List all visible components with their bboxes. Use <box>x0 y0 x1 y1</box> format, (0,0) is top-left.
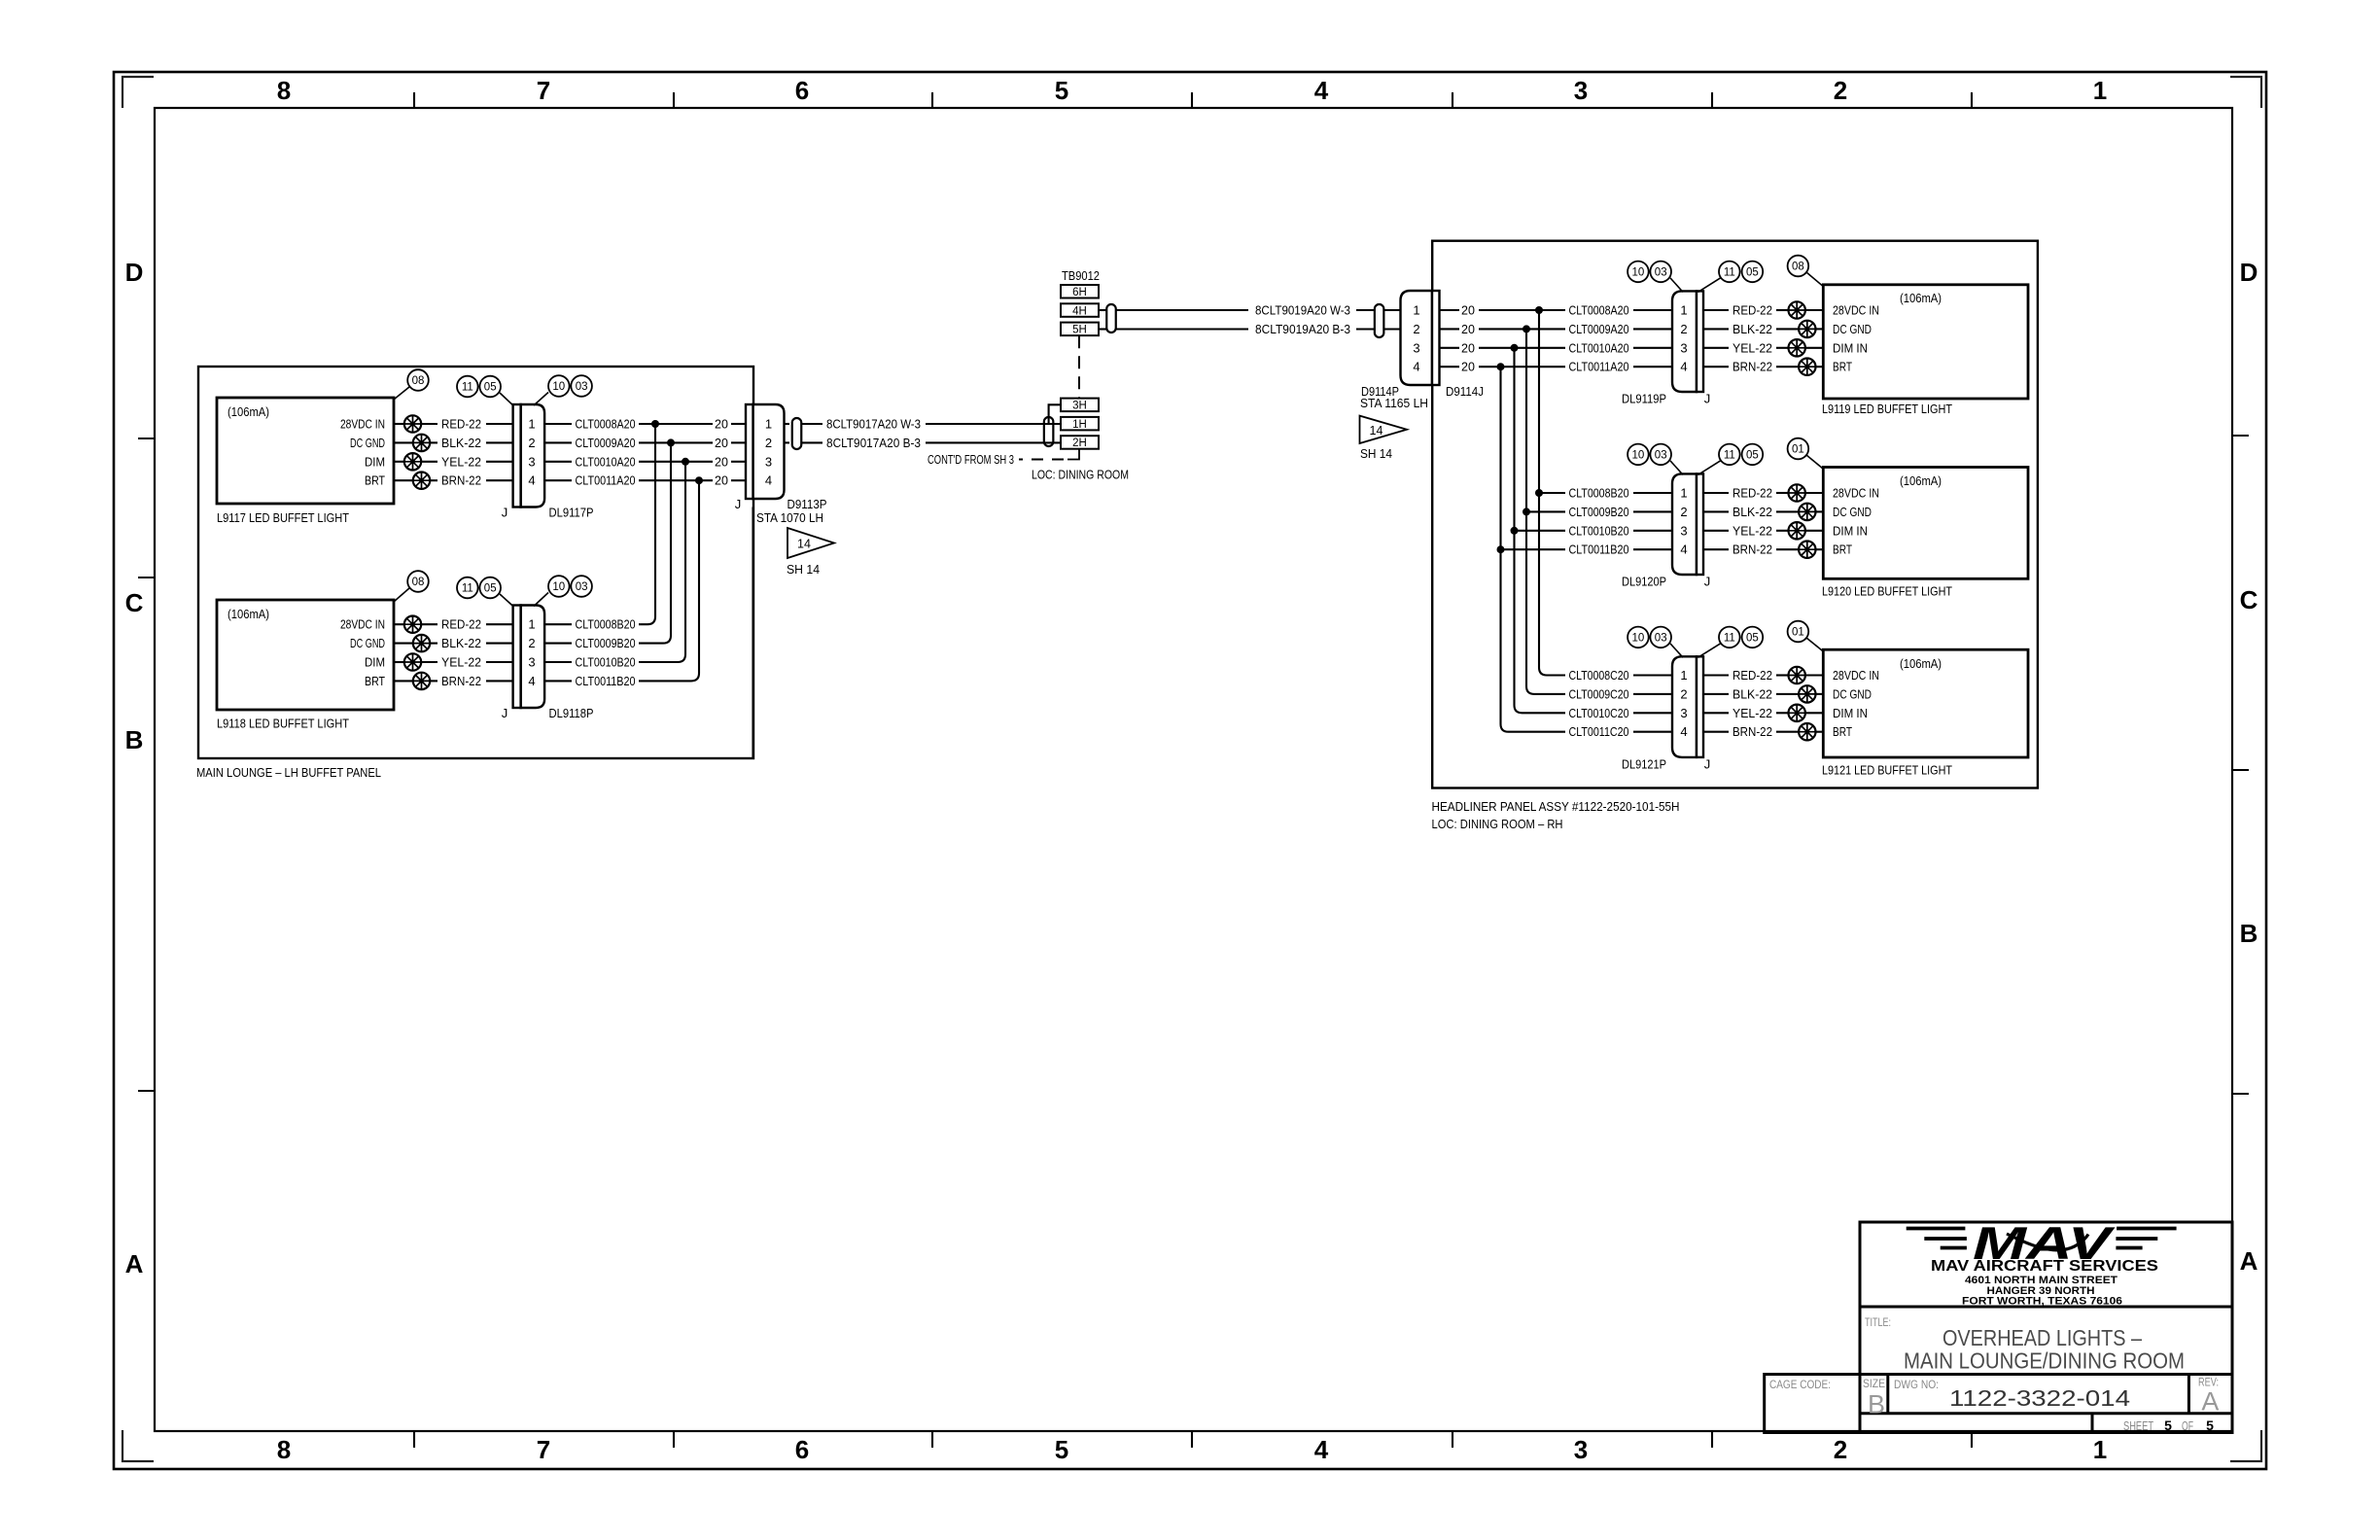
wire 20 label to CLT harness row 2 <box>1479 328 1565 330</box>
svg-text:DIM: DIM <box>365 656 385 670</box>
connector D9114P / D9114J <box>1401 291 1433 385</box>
svg-text:2H: 2H <box>1072 437 1087 449</box>
svg-text:05: 05 <box>484 382 497 394</box>
svg-text:28VDC IN: 28VDC IN <box>1833 304 1879 318</box>
wire 20 label to D9113P pin 4 <box>731 479 747 481</box>
wire DL9119P pin 3 to label YEL-22 <box>1703 347 1730 349</box>
svg-text:DC GND: DC GND <box>1833 687 1872 701</box>
leader 10 to DL9117P body <box>534 393 548 406</box>
svg-text:4: 4 <box>1314 76 1329 105</box>
wire CLT0008B20 riser to junction row 1 <box>639 424 655 624</box>
svg-text:3H: 3H <box>1072 401 1087 412</box>
leader 11 to DL9120P bar <box>1698 461 1721 475</box>
leader 10 to DL9118P body <box>534 593 548 607</box>
wire L9117 RED-22 segment box to lamp <box>394 423 405 425</box>
svg-text:1: 1 <box>528 417 535 432</box>
lamp symbol on BLK-22 of L9120 <box>1799 504 1815 520</box>
svg-text:CLT0011C20: CLT0011C20 <box>1569 725 1629 739</box>
svg-text:11: 11 <box>1724 449 1735 461</box>
wire DL9120P pin 4 to label BRN-22 <box>1703 548 1730 550</box>
svg-text:L9120 LED BUFFET LIGHT: L9120 LED BUFFET LIGHT <box>1822 585 1952 599</box>
wire branch to DL9120P pin 4 <box>1501 548 1566 550</box>
svg-text:1: 1 <box>2093 1435 2107 1464</box>
svg-text:8: 8 <box>277 1435 291 1464</box>
leader 11 to DL9121P bar <box>1698 644 1721 657</box>
wire 8CLT9017A20 B-3 from oval <box>801 441 822 443</box>
svg-text:CLT0010A20: CLT0010A20 <box>1569 341 1629 355</box>
connector DL9120P (P/J pair) <box>1672 473 1697 575</box>
panel box HEADLINER PANEL ASSY <box>1432 241 2038 788</box>
junction dot node row 1 <box>651 420 659 428</box>
lamp symbol on RED-22 of L9118 <box>404 616 421 633</box>
wire lamp to L9120 box <box>1815 510 1824 512</box>
svg-text:B: B <box>125 725 144 754</box>
svg-text:3: 3 <box>1574 76 1588 105</box>
terminal 4H of TB9012 <box>1061 303 1099 317</box>
svg-text:BRT: BRT <box>365 675 385 688</box>
station line right edge of left panel (STA 1070) <box>752 507 753 759</box>
svg-text:8: 8 <box>277 76 291 105</box>
svg-text:C: C <box>125 588 144 617</box>
svg-text:A: A <box>125 1249 144 1278</box>
wire CLT0009A20 to connector DL9119P <box>1633 328 1673 330</box>
zone ticks left edge <box>138 438 155 1091</box>
lamp symbol on BRN-22 of L9121 <box>1799 723 1815 740</box>
callout circle 01 for L9121 <box>1788 621 1809 643</box>
svg-text:LOC: DINING ROOM: LOC: DINING ROOM <box>1032 469 1129 482</box>
svg-text:RED-22: RED-22 <box>1732 304 1772 318</box>
svg-text:MAIN LOUNGE – LH BUFFET P: MAIN LOUNGE – LH BUFFET PANEL <box>196 765 381 780</box>
wire lamp to L9121 box <box>1815 693 1824 695</box>
corner trim mark top-right <box>2230 77 2261 108</box>
title block outline <box>1860 1222 2232 1433</box>
svg-text:DIM IN: DIM IN <box>1833 341 1868 355</box>
svg-text:(106mA): (106mA) <box>227 405 269 419</box>
wire lamp to label YEL-22 <box>420 461 437 463</box>
svg-text:SIZE: SIZE <box>1863 1379 1885 1390</box>
lamp symbol on BRN-22 of L9118 <box>413 673 430 689</box>
svg-text:YEL-22: YEL-22 <box>1732 341 1772 355</box>
panel box MAIN LOUNGE - LH BUFFET PANEL <box>198 367 753 758</box>
lamp symbol on RED-22 of L9121 <box>1789 667 1805 683</box>
callout circles 10 03 for DL9120P <box>1627 444 1649 466</box>
vertical bus wires from D9114J to lower lights <box>1539 310 1565 676</box>
leader 11 to DL9119P bar <box>1698 278 1721 293</box>
svg-text:SHEET: SHEET <box>2123 1419 2153 1433</box>
wire lamp to L9120 box <box>1804 530 1823 532</box>
LED buffet light L9121 <box>1823 649 2028 757</box>
title block divider below dwg no <box>1860 1412 2232 1415</box>
title block size/dwg divider <box>1886 1375 1889 1414</box>
svg-text:2: 2 <box>1413 322 1419 336</box>
connector DL9117P (J/P pair) <box>521 404 545 507</box>
junction dot node row 3 <box>682 458 689 466</box>
wire 8CLT9019A20 B-3 left segment <box>1116 328 1248 330</box>
junction dot D9114J row 2 <box>1522 325 1530 332</box>
connector DL9121P (P/J pair) <box>1672 656 1697 757</box>
svg-text:DL9121P: DL9121P <box>1622 757 1666 771</box>
svg-text:28VDC IN: 28VDC IN <box>1833 669 1879 682</box>
svg-text:4: 4 <box>1680 360 1687 374</box>
svg-text:10: 10 <box>1632 449 1645 461</box>
wire lamp to label RED-22 <box>420 623 437 625</box>
wire RED-22 label to connector DL9118P <box>486 623 513 625</box>
svg-text:2: 2 <box>1680 322 1687 336</box>
callout circles 10 03 for DL9119P <box>1627 262 1649 283</box>
svg-text:(106mA): (106mA) <box>227 608 269 621</box>
wire lamp to L9119 box <box>1804 347 1823 349</box>
zone letters right edge D C B A <box>2240 258 2258 1276</box>
svg-text:CLT0010B20: CLT0010B20 <box>576 656 636 670</box>
wire CLT0010A20 to connector DL9119P <box>1633 347 1673 349</box>
svg-text:DC GND: DC GND <box>350 437 385 450</box>
wire DL9120P pin 3 to label YEL-22 <box>1703 530 1730 532</box>
LED buffet light L9119 <box>1823 285 2028 399</box>
svg-text:1: 1 <box>1413 303 1419 318</box>
leader 08 to L9119 box corner <box>1806 272 1823 286</box>
wire lamp to label BRN-22 <box>429 680 437 682</box>
svg-text:20: 20 <box>1461 323 1475 336</box>
svg-text:20: 20 <box>715 474 728 488</box>
svg-text:20: 20 <box>1461 304 1475 318</box>
wire L9118 YEL-22 segment box to lamp <box>394 661 405 663</box>
svg-text:BRT: BRT <box>365 474 385 488</box>
wire YEL-22 label to lamp <box>1776 347 1789 349</box>
svg-text:CLT0008C20: CLT0008C20 <box>1569 669 1629 682</box>
wire lamp to L9121 box <box>1804 674 1823 676</box>
zone ticks bottom edge <box>414 1431 1972 1448</box>
wire BLK-22 label to connector DL9117P <box>486 441 513 443</box>
svg-text:YEL-22: YEL-22 <box>1732 707 1772 720</box>
wire CLT0008A20 from connector pin 1 <box>544 423 572 425</box>
wire L9118 RED-22 segment box to lamp <box>394 623 405 625</box>
svg-text:2: 2 <box>765 436 772 450</box>
zone ticks right edge <box>2232 436 2249 1094</box>
callout circle 08 for L9118 <box>407 571 429 592</box>
svg-text:SH 14: SH 14 <box>787 563 820 577</box>
sheet reference triangle 14 (SH 14) right <box>1360 416 1408 443</box>
wire BRN-22 label to lamp <box>1776 548 1800 550</box>
wire D9114J pin 4 to gauge label <box>1440 366 1459 367</box>
svg-text:CLT0009A20: CLT0009A20 <box>576 437 636 450</box>
svg-text:J: J <box>502 506 508 520</box>
corner trim mark top-left <box>122 77 154 108</box>
LED buffet light L9117 <box>217 398 394 504</box>
svg-text:1: 1 <box>1680 668 1687 682</box>
wire CLT0008C20 to connector DL9121P <box>1633 674 1673 676</box>
leader 08 to L9117 box corner <box>395 387 410 400</box>
wire CLT0008A20 to connector DL9119P <box>1633 309 1673 311</box>
wire 20 label to CLT harness row 1 <box>1479 309 1565 311</box>
svg-text:FORT WORTH, TEXAS 76106: FORT WORTH, TEXAS 76106 <box>1962 1296 2122 1308</box>
svg-text:8CLT9017A20 B-3: 8CLT9017A20 B-3 <box>826 437 921 450</box>
svg-text:20: 20 <box>1461 361 1475 374</box>
wire YEL-22 label to connector DL9118P <box>486 661 513 663</box>
svg-text:CLT0009C20: CLT0009C20 <box>1569 687 1629 701</box>
wire BLK-22 label to connector DL9118P <box>486 643 513 645</box>
svg-text:5: 5 <box>2206 1417 2214 1433</box>
svg-text:10: 10 <box>1632 266 1645 278</box>
wire 8CLT9017A20 W-3 to terminal 1H <box>926 423 1061 425</box>
svg-text:A: A <box>2201 1387 2219 1417</box>
svg-text:1H: 1H <box>1072 419 1087 431</box>
wire lamp to label BRN-22 <box>429 479 437 481</box>
svg-text:CLT0009A20: CLT0009A20 <box>1569 323 1629 336</box>
svg-text:B: B <box>2240 919 2258 948</box>
svg-text:DIM: DIM <box>365 455 385 469</box>
wire L9118 BRN-22 segment box to lamp <box>394 680 414 682</box>
svg-text:BLK-22: BLK-22 <box>1732 506 1772 519</box>
wire DL9119P pin 4 to label BRN-22 <box>1703 366 1730 367</box>
lamp symbol on RED-22 of L9119 <box>1789 301 1805 318</box>
svg-text:J: J <box>1704 392 1711 406</box>
corner trim mark bottom-right <box>2230 1430 2261 1461</box>
title block sheet cell divider <box>2091 1414 2094 1433</box>
zone numbers bottom edge 8-1 <box>277 1435 2107 1464</box>
wire YEL-22 label to connector DL9117P <box>486 461 513 463</box>
wire lamp to L9119 box <box>1815 328 1824 330</box>
svg-text:03: 03 <box>1655 266 1667 278</box>
svg-text:J: J <box>1704 756 1711 771</box>
wire DL9119P pin 1 to label RED-22 <box>1703 309 1730 311</box>
wire CLT0010A20 from connector pin 3 <box>544 461 572 463</box>
wire D9114J pin 1 to gauge label <box>1440 309 1459 311</box>
jumper terminal 3H to wire W-3 <box>1049 404 1061 424</box>
svg-text:L9119 LED BUFFET LIGHT: L9119 LED BUFFET LIGHT <box>1822 402 1952 416</box>
svg-text:20: 20 <box>715 437 728 450</box>
svg-text:28VDC IN: 28VDC IN <box>1833 487 1879 501</box>
svg-text:8CLT9019A20 W-3: 8CLT9019A20 W-3 <box>1255 304 1350 318</box>
svg-text:D: D <box>2240 258 2258 287</box>
dashed tie line TB9012 upper to lower group <box>1078 335 1080 398</box>
svg-text:OF: OF <box>2182 1419 2193 1433</box>
zone numbers top edge 8-1 <box>277 76 2107 105</box>
svg-text:BRT: BRT <box>1833 543 1852 557</box>
svg-text:08: 08 <box>412 375 425 387</box>
wire CLT0011B20 from connector pin 4 <box>544 680 572 682</box>
wire CLT0010C20 to connector DL9121P <box>1633 712 1673 714</box>
wire BRN-22 label to connector DL9118P <box>486 680 513 682</box>
callout circle 08 for L9117 <box>407 369 429 391</box>
svg-text:1: 1 <box>765 417 772 432</box>
svg-text:3: 3 <box>1680 706 1687 720</box>
wire lamp to L9119 box <box>1804 309 1823 311</box>
svg-text:CLT0011B20: CLT0011B20 <box>576 675 636 688</box>
leader 01 to L9121 box corner <box>1806 638 1823 651</box>
svg-text:01: 01 <box>1792 627 1804 639</box>
LED buffet light L9118 <box>217 600 394 710</box>
svg-text:4: 4 <box>765 473 772 488</box>
svg-text:D9113P: D9113P <box>787 498 827 511</box>
svg-text:BRT: BRT <box>1833 725 1852 739</box>
callout circles 11 05 for DL9121P <box>1719 627 1740 648</box>
wire BRN-22 label to lamp <box>1776 366 1800 367</box>
svg-text:CLT0011A20: CLT0011A20 <box>1569 361 1629 374</box>
svg-text:11: 11 <box>1724 632 1735 644</box>
svg-text:3: 3 <box>765 454 772 469</box>
wire lamp to L9119 box <box>1815 366 1824 367</box>
svg-text:20: 20 <box>1461 341 1475 355</box>
lamp symbol on BLK-22 of L9119 <box>1799 321 1815 337</box>
zone ticks top edge <box>414 92 1972 108</box>
svg-text:YEL-22: YEL-22 <box>441 656 481 670</box>
svg-text:6: 6 <box>795 76 809 105</box>
svg-text:28VDC IN: 28VDC IN <box>340 618 385 632</box>
wire 20 label to D9113P pin 1 <box>731 423 747 425</box>
svg-text:1122-3322-014: 1122-3322-014 <box>1949 1385 2130 1411</box>
wire twisted pair to D9114P pin 1 <box>1383 309 1401 311</box>
wire CLT0011A20 to connector DL9119P <box>1633 366 1673 367</box>
svg-text:CLT0008A20: CLT0008A20 <box>1569 304 1629 318</box>
svg-text:5: 5 <box>1055 76 1068 105</box>
leader 05 to DL9118P bar <box>500 594 513 607</box>
svg-text:B: B <box>1868 1390 1885 1419</box>
svg-text:BLK-22: BLK-22 <box>441 437 481 450</box>
svg-text:L9118 LED BUFFET LIGHT: L9118 LED BUFFET LIGHT <box>217 717 349 731</box>
wire DL9119P pin 2 to label BLK-22 <box>1703 328 1730 330</box>
svg-text:11: 11 <box>462 382 473 394</box>
wire branch to DL9120P pin 1 <box>1539 492 1565 494</box>
svg-text:BRN-22: BRN-22 <box>1732 725 1772 739</box>
callout circles 11 05 for DL9119P <box>1719 262 1740 283</box>
callout circles 11 05 for DL9118P <box>457 577 478 599</box>
svg-text:DL9120P: DL9120P <box>1622 576 1666 589</box>
svg-text:03: 03 <box>1655 449 1667 461</box>
svg-text:SH 14: SH 14 <box>1360 447 1392 461</box>
zone letters left edge D C B A <box>125 258 144 1278</box>
svg-text:08: 08 <box>1792 262 1804 273</box>
svg-text:11: 11 <box>462 583 473 595</box>
wire CLT0008B20 to connector DL9120P <box>1633 492 1673 494</box>
svg-text:4: 4 <box>528 473 535 488</box>
svg-text:(106mA): (106mA) <box>1900 657 1942 671</box>
svg-text:05: 05 <box>1746 266 1759 278</box>
wire CLT0009B20 riser to junction row 2 <box>639 442 671 643</box>
svg-text:2: 2 <box>528 436 535 450</box>
svg-text:J: J <box>502 706 508 720</box>
wire CLT0009A20 to D9113P pin 2 <box>639 441 713 443</box>
wire RED-22 label to lamp <box>1776 674 1789 676</box>
wire CLT0011C20 to connector DL9121P <box>1633 731 1673 733</box>
svg-text:28VDC IN: 28VDC IN <box>340 418 385 432</box>
wire BRN-22 label to connector DL9117P <box>486 479 513 481</box>
svg-text:MAIN LOUNGE/DINING ROOM: MAIN LOUNGE/DINING ROOM <box>1904 1348 2185 1374</box>
svg-text:03: 03 <box>1655 632 1667 644</box>
terminal 2H of TB9012 <box>1061 436 1099 449</box>
leader 03 to DL9121P body <box>1670 644 1683 657</box>
svg-text:RED-22: RED-22 <box>441 618 481 632</box>
wire BRN-22 label to lamp <box>1776 731 1800 733</box>
wire DL9121P pin 2 to label BLK-22 <box>1703 693 1730 695</box>
wire L9117 YEL-22 segment box to lamp <box>394 461 405 463</box>
svg-text:5: 5 <box>2164 1417 2172 1433</box>
wire lamp to L9120 box <box>1804 492 1823 494</box>
svg-text:10: 10 <box>1632 632 1645 644</box>
svg-text:D: D <box>125 258 144 287</box>
svg-text:08: 08 <box>412 577 425 588</box>
svg-text:5H: 5H <box>1072 325 1087 336</box>
svg-text:L9117 LED BUFFET LIGHT: L9117 LED BUFFET LIGHT <box>217 511 349 525</box>
wire L9118 BLK-22 segment box to lamp <box>394 643 414 645</box>
svg-text:CLT0010A20: CLT0010A20 <box>576 455 636 469</box>
wire lamp to label RED-22 <box>420 423 437 425</box>
svg-text:DC GND: DC GND <box>1833 506 1872 519</box>
twisted-pair symbol at D9113P output <box>785 423 789 425</box>
svg-text:C: C <box>2240 585 2258 614</box>
svg-text:CLT0008B20: CLT0008B20 <box>576 618 636 632</box>
wire CLT0009A20 from connector pin 2 <box>544 441 572 443</box>
svg-text:DWG NO:: DWG NO: <box>1894 1380 1939 1391</box>
svg-text:MAV AIRCRAFT SERVICES: MAV AIRCRAFT SERVICES <box>1931 1258 2158 1275</box>
wire terminal 5H to twisted pair <box>1099 328 1107 330</box>
lamp symbol on BRN-22 of L9117 <box>413 472 430 489</box>
svg-text:DIM IN: DIM IN <box>1833 707 1868 720</box>
wire CLT0010A20 to D9113P pin 3 <box>639 461 713 463</box>
svg-text:10: 10 <box>552 581 565 593</box>
svg-text:LOC: DINING ROOM – RH: LOC: DINING ROOM – RH <box>1432 818 1563 831</box>
sheet reference triangle 14 (SH 14) left <box>787 528 834 558</box>
svg-text:CLT0011A20: CLT0011A20 <box>576 474 636 488</box>
wire CLT0008A20 to D9113P pin 1 <box>639 423 713 425</box>
wire BLK-22 label to lamp <box>1776 328 1800 330</box>
wire lamp to label BLK-22 <box>429 441 437 443</box>
wire lamp to label BLK-22 <box>429 643 437 645</box>
junction dot D9114J row 3 <box>1511 344 1519 352</box>
connector DL9118P (J/P pair) <box>521 606 545 709</box>
callout circles 10 03 for DL9117P <box>548 375 570 397</box>
svg-text:CLT0011B20: CLT0011B20 <box>1569 543 1629 557</box>
svg-text:2: 2 <box>1680 505 1687 519</box>
svg-text:J: J <box>1704 575 1711 589</box>
wire CLT0008B20 from connector pin 1 <box>544 623 572 625</box>
lamp symbol on YEL-22 of L9120 <box>1789 522 1805 539</box>
svg-text:20: 20 <box>715 418 728 432</box>
svg-text:TITLE:: TITLE: <box>1865 1317 1891 1329</box>
lamp symbol on YEL-22 of L9118 <box>404 653 421 670</box>
svg-text:RED-22: RED-22 <box>1732 669 1772 682</box>
svg-text:TB9012: TB9012 <box>1062 269 1100 283</box>
junction dot node row 4 <box>695 476 703 484</box>
wire L9117 BRN-22 segment box to lamp <box>394 479 414 481</box>
svg-text:2: 2 <box>1834 1435 1847 1464</box>
svg-text:4: 4 <box>1680 542 1687 557</box>
wire branch to DL9120P pin 3 <box>1515 530 1566 532</box>
svg-text:1: 1 <box>1680 303 1687 318</box>
svg-text:4: 4 <box>1413 360 1419 374</box>
wire BLK-22 label to lamp <box>1776 693 1800 695</box>
title block dwg/rev divider <box>2187 1375 2190 1414</box>
dashed continuation from terminal 2H <box>1067 449 1079 460</box>
svg-text:10: 10 <box>552 381 565 393</box>
wire YEL-22 label to lamp <box>1776 530 1789 532</box>
wire 8CLT9019A20 W-3 right segment <box>1356 309 1375 311</box>
callout circles 11 05 for DL9120P <box>1719 444 1740 466</box>
wire lamp to L9120 box <box>1815 548 1824 550</box>
svg-text:11: 11 <box>1724 266 1735 278</box>
wire D9114J pin 2 to gauge label <box>1440 328 1459 330</box>
wire CLT0010B20 to connector DL9120P <box>1633 530 1673 532</box>
svg-text:RED-22: RED-22 <box>1732 487 1772 501</box>
svg-text:BRN-22: BRN-22 <box>441 675 481 688</box>
wire RED-22 label to lamp <box>1776 309 1789 311</box>
svg-text:1: 1 <box>528 617 535 632</box>
svg-text:OVERHEAD LIGHTS –: OVERHEAD LIGHTS – <box>1942 1325 2142 1350</box>
wire CLT0009C20 to connector DL9121P <box>1633 693 1673 695</box>
wire 8CLT9019A20 B-3 right segment <box>1356 328 1375 330</box>
wire CLT0011B20 to connector DL9120P <box>1633 548 1673 550</box>
svg-text:DC GND: DC GND <box>1833 323 1872 336</box>
svg-text:CONT'D FROM SH 3: CONT'D FROM SH 3 <box>927 453 1014 467</box>
